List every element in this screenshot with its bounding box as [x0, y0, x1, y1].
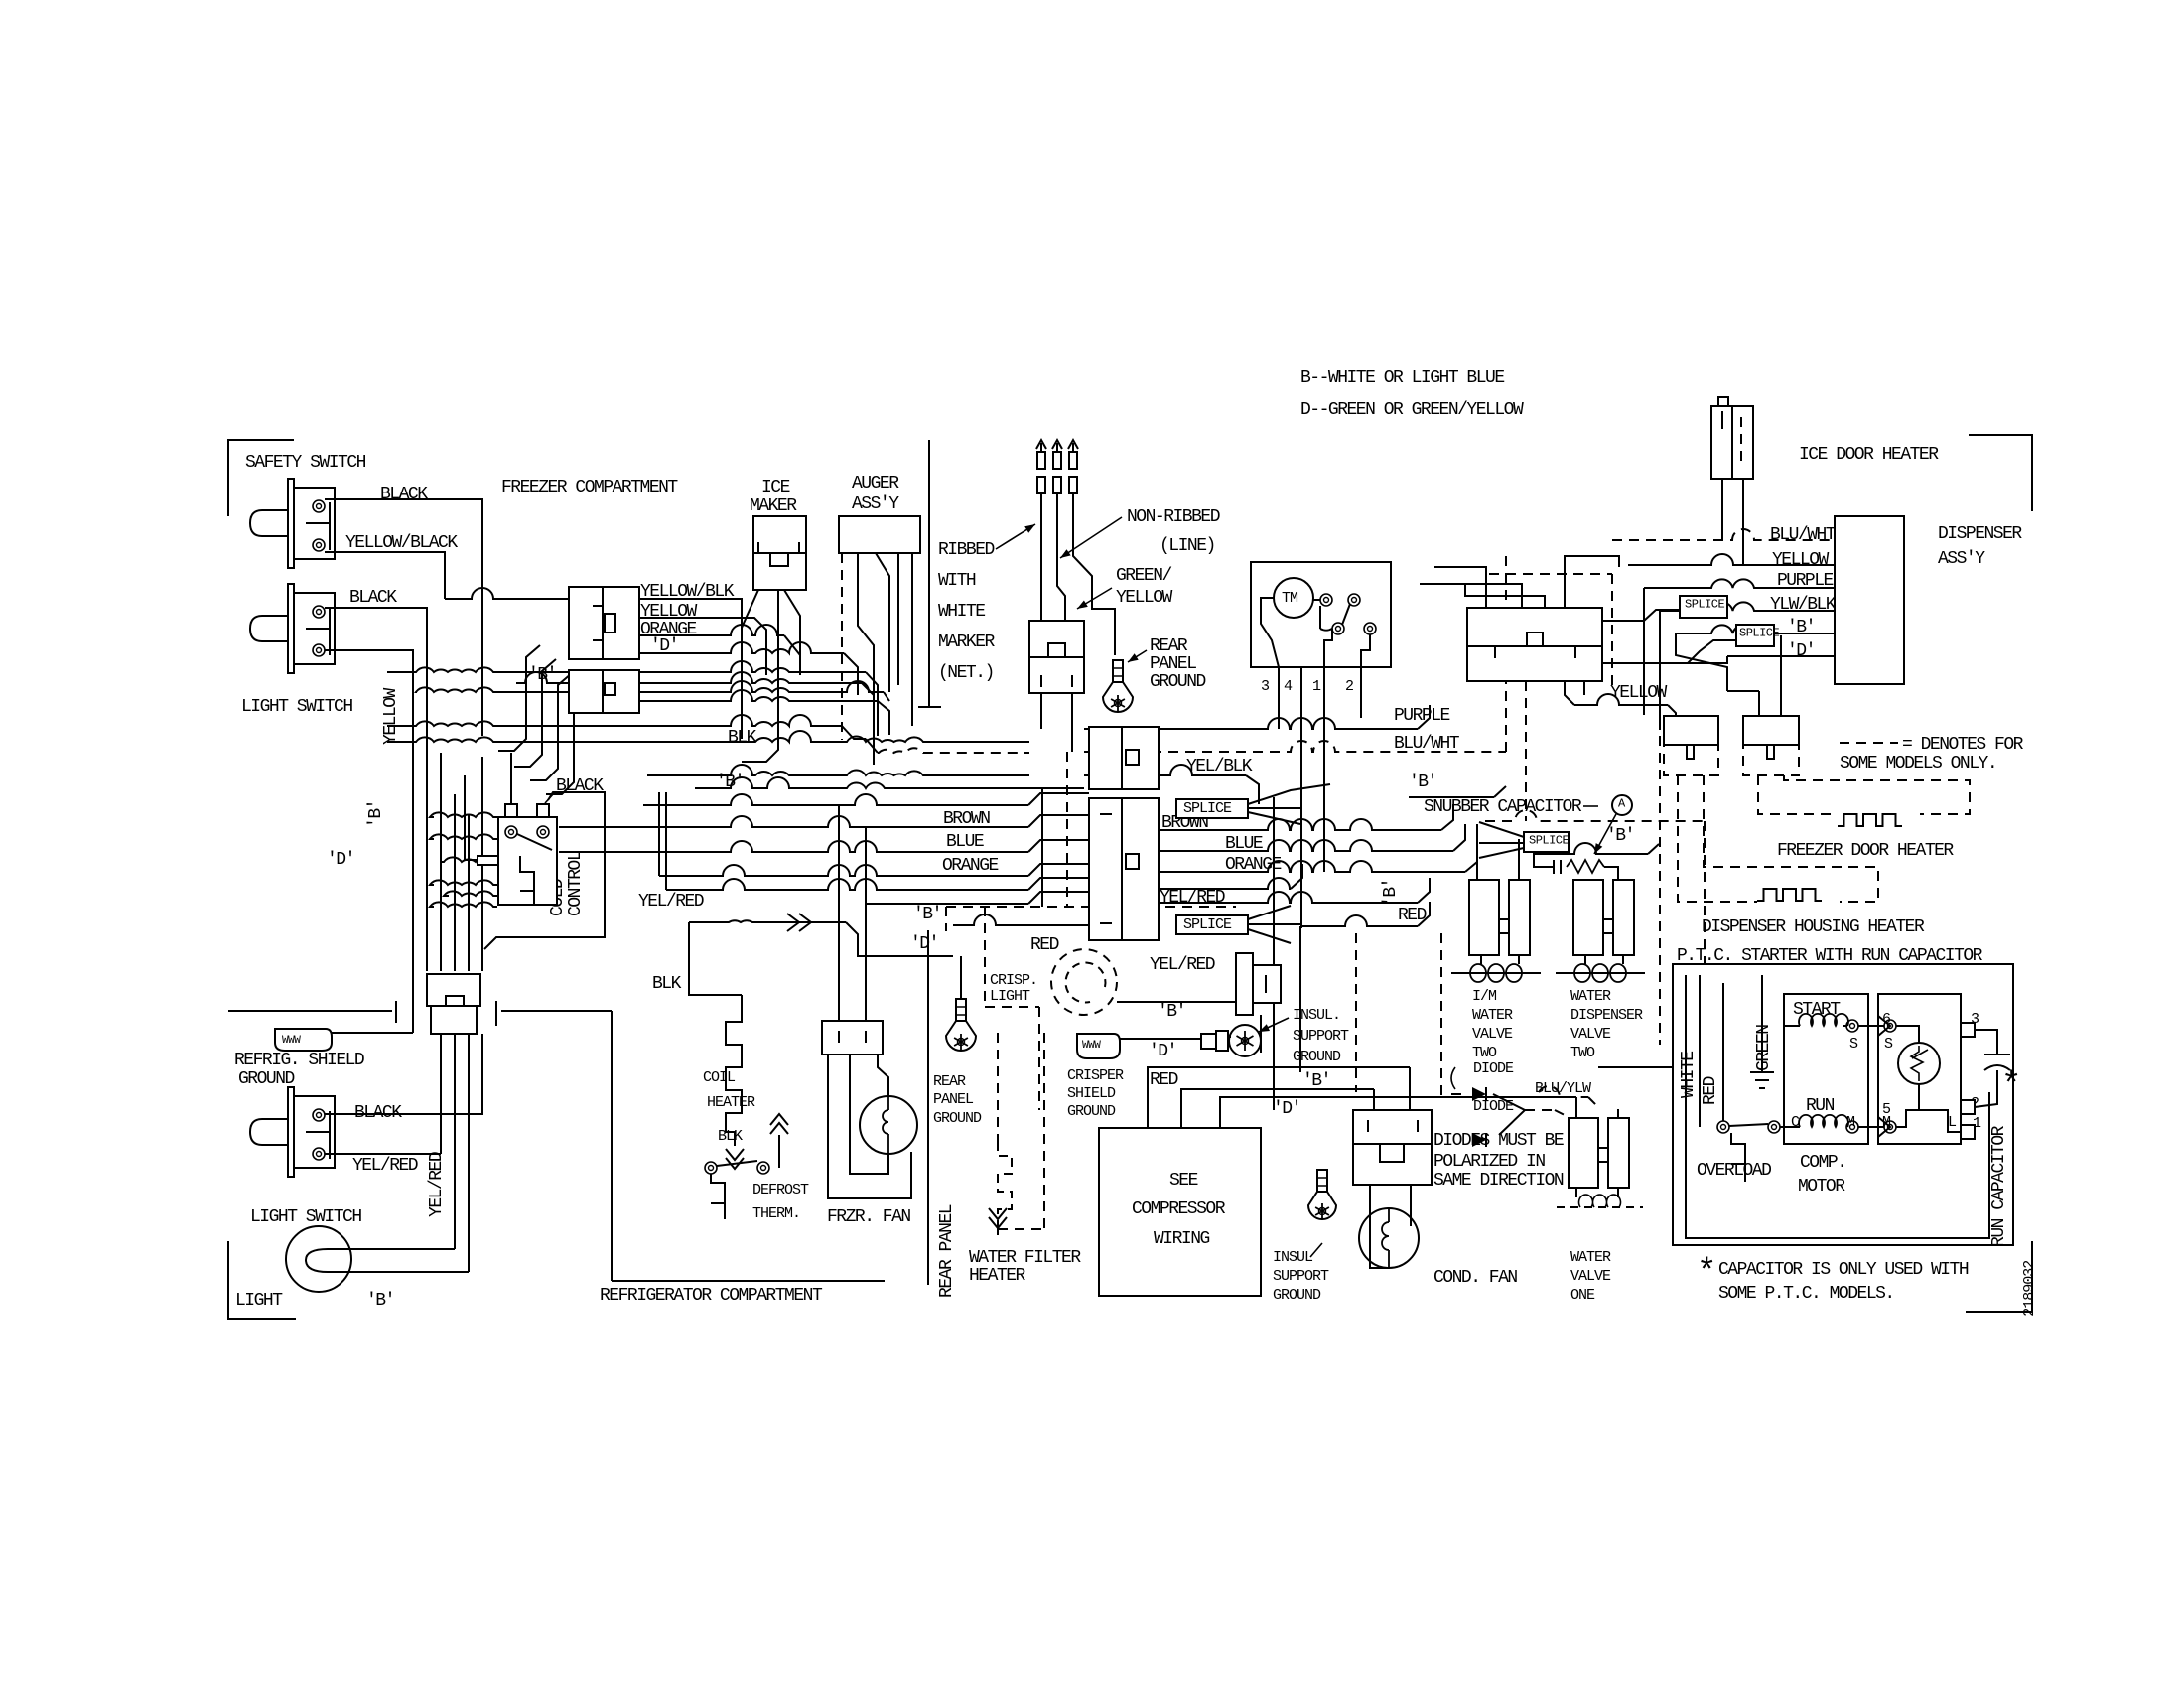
- svg-text:MOTOR: MOTOR: [1798, 1177, 1845, 1196]
- bus yelblk right: [1084, 765, 1259, 804]
- bus orange right: [1159, 850, 1477, 872]
- svg-text:4: 4: [1284, 678, 1293, 695]
- rear panel label vert: [937, 1204, 957, 1298]
- dispenser housing heater bumps: [1757, 889, 1822, 901]
- wire conn A out 4: [639, 642, 858, 695]
- rear panel divider: [927, 930, 929, 1285]
- compartment boundary line: [228, 1001, 612, 1281]
- orange label R: [1225, 855, 1282, 875]
- svg-text:ONE: ONE: [1570, 1287, 1595, 1304]
- coil heater label: [703, 1069, 755, 1111]
- svg-text:FRZR. FAN: FRZR. FAN: [827, 1207, 910, 1227]
- comp motor box: [1784, 994, 1868, 1144]
- diodes note: [1433, 1131, 1564, 1191]
- capacitor note aster: [1697, 1254, 1715, 1292]
- crisp wire right solid: [1117, 1001, 1236, 1003]
- insul support ground 3 label: [1273, 1243, 1329, 1304]
- cold control wire up 1: [510, 753, 512, 804]
- wire black label 2: [349, 588, 397, 608]
- svg-text:GROUND: GROUND: [933, 1110, 982, 1127]
- wire orange label: [640, 620, 697, 639]
- yellow label right: [1610, 683, 1668, 703]
- svg-text:BLACK: BLACK: [354, 1103, 402, 1123]
- ptc title: [1677, 946, 1983, 966]
- crisper gnd bulb: [1228, 1025, 1261, 1056]
- ptc ground sym: [1750, 1072, 1774, 1088]
- svg-text:SUPPORT: SUPPORT: [1293, 1028, 1349, 1045]
- auger pin 3: [876, 553, 889, 692]
- yelblk label: [1186, 757, 1253, 776]
- non-ribbed leader: [1060, 517, 1122, 558]
- frzr fan circle: [860, 1096, 917, 1154]
- snubber capacitor label: [1424, 797, 1582, 817]
- ribbed leader: [996, 524, 1035, 549]
- svg-text:SAFETY SWITCH: SAFETY SWITCH: [245, 453, 366, 473]
- wire black switch2: [325, 1037, 482, 1114]
- svg-text:P.T.C. STARTER WITH RUN CAPACI: P.T.C. STARTER WITH RUN CAPACITOR: [1677, 946, 1983, 966]
- svg-text:BLU/WHT: BLU/WHT: [1770, 525, 1837, 545]
- blu/ylw label: [1535, 1080, 1591, 1097]
- cold control label: [548, 851, 586, 916]
- ptc terminal 6: [1884, 1020, 1896, 1032]
- node D left2: [327, 850, 354, 870]
- timer pin 4 wire: [1300, 667, 1302, 928]
- wire ptc internal: [1896, 1084, 1961, 1132]
- svg-text:SOME P.T.C. MODELS.: SOME P.T.C. MODELS.: [1718, 1284, 1894, 1304]
- power cord prong right: [1068, 440, 1115, 655]
- green wire ptc: [1761, 975, 1763, 1072]
- svg-text:SPLICE: SPLICE: [1739, 627, 1780, 640]
- svg-text:WATER FILTER: WATER FILTER: [969, 1248, 1081, 1268]
- conn B left feed: [516, 672, 569, 683]
- cold control contact: [517, 834, 552, 850]
- wire vert x472: [468, 814, 470, 971]
- label 3 ptc: [1971, 1011, 1979, 1028]
- overload terminals: [1717, 1121, 1780, 1133]
- plug pin stub 2: [1071, 693, 1073, 752]
- red label comp: [1150, 1070, 1178, 1090]
- svg-text:GROUND: GROUND: [1150, 672, 1206, 692]
- wire black label 1: [380, 485, 428, 504]
- center connector top wire 4: [1565, 556, 1619, 608]
- svg-text:YEL/RED: YEL/RED: [427, 1152, 447, 1217]
- defrost terminals: [705, 1162, 769, 1174]
- svg-text:REFRIG. SHIELD: REFRIG. SHIELD: [234, 1051, 364, 1070]
- asterisk cap: [2001, 1067, 2020, 1105]
- bus 731: [387, 715, 866, 739]
- cold control black loop: [484, 792, 605, 949]
- wire lamp bottom lead: [351, 1271, 469, 1273]
- label 5: [1882, 1101, 1891, 1118]
- connector E upper: [1089, 727, 1159, 789]
- l label ptc: [1948, 1114, 1957, 1131]
- wire vert x486 lower: [481, 757, 483, 971]
- comp motor label: [1798, 1153, 1846, 1196]
- svg-text:'B': 'B': [366, 1291, 394, 1311]
- svg-text:WHITE: WHITE: [938, 602, 985, 622]
- svg-text:OVERLOAD: OVERLOAD: [1697, 1161, 1771, 1181]
- cold control left pin wire: [465, 775, 478, 860]
- node B crisp: [1158, 1002, 1185, 1022]
- svg-text:WITH: WITH: [938, 571, 976, 591]
- dashed trunk vertical 1672: [1659, 685, 1661, 1045]
- wire conn A out 1: [639, 599, 742, 628]
- bus row 811: [643, 793, 1089, 805]
- green/yellow leader: [1077, 588, 1112, 609]
- svg-text:(NET.): (NET.): [938, 663, 994, 683]
- svg-text:ICE DOOR HEATER: ICE DOOR HEATER: [1799, 445, 1939, 465]
- im valve body: [1469, 880, 1530, 955]
- svg-text:'B': 'B': [1409, 773, 1436, 792]
- run label: [1806, 1096, 1835, 1116]
- timer box: [1251, 562, 1391, 667]
- node D crisper: [1149, 1042, 1176, 1061]
- svg-text:DIODES MUST BE: DIODES MUST BE: [1433, 1131, 1564, 1151]
- bus yelred right: [1159, 878, 1430, 903]
- svg-text:BLK: BLK: [652, 974, 682, 994]
- crisper shield ground symbol: [1077, 1034, 1120, 1058]
- node B left vert: [366, 800, 386, 828]
- svg-text:LIGHT SWITCH: LIGHT SWITCH: [250, 1207, 361, 1227]
- defrost zig: [711, 1174, 725, 1219]
- light node B: [366, 1291, 394, 1311]
- node B comp: [1302, 1071, 1330, 1091]
- svg-text:YEL/RED: YEL/RED: [638, 892, 704, 912]
- refrig shield ground symbol: [275, 1029, 332, 1051]
- cond fan coil: [1382, 1208, 1389, 1268]
- yellow disp label: [1772, 550, 1830, 570]
- svg-text:COMPRESSOR: COMPRESSOR: [1132, 1199, 1226, 1219]
- start label: [1793, 1000, 1841, 1020]
- svg-text:SOME MODELS ONLY.: SOME MODELS ONLY.: [1840, 754, 1996, 774]
- svg-text:'B': 'B': [1302, 1071, 1330, 1091]
- center connector right wire 1: [1602, 610, 1680, 621]
- wire lamp top lead: [351, 1248, 455, 1250]
- node B vert label: [1381, 879, 1401, 907]
- power cord prong ribbed: [1036, 440, 1046, 621]
- yellow disp wire: [1628, 554, 1835, 565]
- dashed valve2 box: [1441, 810, 1705, 1109]
- circled A: [1612, 795, 1632, 815]
- s label comp: [1849, 1036, 1858, 1053]
- svg-text:VALVE: VALVE: [1570, 1268, 1611, 1285]
- label 6: [1882, 1011, 1891, 1028]
- dispenser housing heater loop: [1678, 775, 1878, 902]
- s-curve band wire 3: [530, 673, 572, 780]
- denotes note: [1840, 735, 2024, 774]
- bus 895 right: [1159, 864, 1302, 889]
- rear ground 2 stem up: [960, 956, 962, 1010]
- svg-text:BLK: BLK: [718, 1128, 743, 1145]
- wire b to ptc: [1598, 1066, 1700, 1068]
- wire brown label L: [943, 809, 990, 829]
- frzr fan filament: [883, 1096, 888, 1154]
- svg-text:SUPPORT: SUPPORT: [1273, 1268, 1329, 1285]
- run capacitor label: [1989, 1125, 2009, 1247]
- snubber network: [1534, 850, 1623, 880]
- cold control pins: [478, 804, 549, 865]
- insul support ground label c: [1259, 1007, 1349, 1065]
- svg-text:B--WHITE OR LIGHT BLUE: B--WHITE OR LIGHT BLUE: [1300, 368, 1504, 388]
- rear panel ground 1 leader: [1128, 650, 1147, 662]
- bus red mid: [953, 914, 1089, 925]
- ylwblk disp wire: [1660, 602, 1835, 611]
- defrost chevron up: [770, 1114, 788, 1134]
- wire black safety switch: [325, 499, 482, 736]
- ptc terminal 5: [1884, 1121, 1896, 1133]
- dispenser valve label: [1570, 988, 1643, 1061]
- wire black light switch: [325, 608, 427, 971]
- node B mid2: [913, 905, 941, 924]
- frzr fan label: [827, 1207, 910, 1227]
- node B left: [528, 665, 556, 685]
- freezer door heater dashes: [1758, 775, 1970, 814]
- water filter dashed right: [998, 1033, 1044, 1229]
- dispenser housing heater label: [1702, 917, 1925, 937]
- svg-text:RIBBED: RIBBED: [938, 540, 995, 560]
- svg-text:PURPLE: PURPLE: [1394, 706, 1450, 726]
- svg-text:GREEN: GREEN: [1754, 1025, 1774, 1071]
- svg-text:GREEN/: GREEN/: [1116, 566, 1172, 586]
- svg-text:SPLICE: SPLICE: [1183, 800, 1232, 817]
- refrig shield ground lead: [332, 1032, 413, 1034]
- run coil: [1793, 1115, 1848, 1127]
- node B disp: [1787, 618, 1815, 637]
- svg-text:BROWN: BROWN: [943, 809, 990, 829]
- svg-text:S: S: [1884, 1036, 1893, 1053]
- water valve one label: [1570, 1249, 1611, 1304]
- crisp label: [990, 972, 1037, 1005]
- wire ice door 1: [1721, 479, 1723, 540]
- bus purple right: [1084, 705, 1430, 729]
- svg-text:PANEL: PANEL: [1150, 654, 1196, 674]
- s label ptc: [1884, 1036, 1893, 1053]
- white label vert: [1679, 1052, 1699, 1098]
- dashed vertical 1517: [1505, 556, 1507, 752]
- overload zig: [1731, 1133, 1745, 1182]
- svg-text:TM: TM: [1282, 590, 1298, 607]
- part line top bracket: [1969, 435, 2032, 511]
- s-curve band wire 2: [514, 659, 556, 767]
- crisp dashed wire: [985, 907, 1039, 1110]
- svg-text:'D': 'D': [1149, 1042, 1176, 1061]
- light lamp circle: [286, 1226, 351, 1292]
- overload wire: [1729, 1124, 1793, 1127]
- legend line D: [1300, 400, 1524, 420]
- svg-text:REAR PANEL: REAR PANEL: [937, 1204, 957, 1298]
- purple label: [1394, 706, 1450, 726]
- svg-text:SAME DIRECTION: SAME DIRECTION: [1433, 1171, 1564, 1191]
- ice maker box: [753, 516, 806, 590]
- wire vert x458: [454, 794, 456, 971]
- big B vertical: [1273, 797, 1275, 1110]
- svg-text:YELLOW: YELLOW: [1116, 588, 1173, 608]
- bluwht label: [1394, 734, 1460, 754]
- svg-text:SEE: SEE: [1169, 1171, 1198, 1191]
- bus b right: [1409, 786, 1506, 797]
- vert 1050: [1041, 789, 1043, 907]
- svg-text:SNUBBER CAPACITOR: SNUBBER CAPACITOR: [1424, 797, 1582, 817]
- svg-text:COIL: COIL: [703, 1069, 736, 1086]
- bluwht disp wire: [1612, 529, 1835, 540]
- connector C: [427, 974, 480, 1034]
- ptc outer box: [1673, 964, 2013, 1245]
- svg-text:GROUND: GROUND: [1273, 1287, 1321, 1304]
- svg-text:DISPENSER: DISPENSER: [1570, 1007, 1643, 1024]
- svg-text:LIGHT SWITCH: LIGHT SWITCH: [241, 697, 352, 717]
- ptc inner frame: [1686, 975, 1989, 1238]
- svg-text:YELLOW: YELLOW: [1610, 683, 1668, 703]
- svg-text:FREEZER COMPARTMENT: FREEZER COMPARTMENT: [501, 478, 678, 497]
- svg-text:'D': 'D': [910, 934, 938, 954]
- part underline bracket: [1966, 1241, 2032, 1312]
- white wire ptc: [1699, 975, 1701, 1127]
- water filter label: [969, 1248, 1081, 1286]
- svg-text:HEATER: HEATER: [707, 1094, 755, 1111]
- wire vert x458 lower: [454, 1037, 456, 1249]
- center connector: [1467, 608, 1602, 681]
- ice door heater label: [1799, 445, 1939, 465]
- light label: [235, 1291, 283, 1311]
- svg-text:'B': 'B': [1381, 879, 1401, 907]
- water valve one coil dashed: [1557, 1195, 1643, 1207]
- compressor label: [1132, 1171, 1226, 1249]
- light lamp filament: [306, 1249, 351, 1272]
- bus row 858: [442, 840, 1089, 862]
- splice 3 fan: [1479, 822, 1524, 858]
- start coil: [1784, 1014, 1848, 1026]
- svg-text:'B': 'B': [1606, 826, 1634, 846]
- blk label left: [652, 974, 682, 994]
- auger pin 2: [858, 553, 874, 765]
- splice 3 box: [1524, 832, 1570, 852]
- wire conn A out 3: [639, 625, 800, 675]
- svg-text:YELLOW/BLACK: YELLOW/BLACK: [345, 533, 458, 553]
- right plug 2 dashed: [1743, 745, 1799, 775]
- svg-text:WWW: WWW: [1082, 1040, 1101, 1052]
- svg-text:ICE: ICE: [761, 478, 790, 497]
- m label comp: [1846, 1114, 1855, 1131]
- light switch 2 label: [250, 1207, 361, 1227]
- wire yellow light switch: [325, 650, 413, 1033]
- freezer door heater bumps: [1838, 814, 1902, 826]
- c label: [1791, 1114, 1800, 1131]
- node B right: [1409, 773, 1436, 792]
- im valve label: [1472, 988, 1513, 1061]
- right plug 1: [1664, 716, 1718, 759]
- center connector top wire 1: [1434, 567, 1486, 608]
- label 1 ptc: [1973, 1115, 1981, 1132]
- bus 677: [387, 661, 878, 736]
- svg-text:YEL/RED: YEL/RED: [352, 1156, 418, 1176]
- vert 671: [665, 792, 667, 890]
- freezer door heater label: [1777, 841, 1954, 861]
- green/yellow label: [1116, 566, 1173, 608]
- wire yellow/blk label: [640, 582, 735, 602]
- svg-text:BLU/WHT: BLU/WHT: [1394, 734, 1460, 754]
- plug connector: [1029, 621, 1084, 693]
- ptc zigzag: [1911, 1046, 1928, 1081]
- wire conn A out 2: [639, 618, 766, 675]
- svg-text:SPLICE: SPLICE: [1685, 598, 1725, 612]
- svg-text:AUGER: AUGER: [852, 474, 899, 493]
- svg-text:FREEZER DOOR HEATER: FREEZER DOOR HEATER: [1777, 841, 1954, 861]
- crisp light inner: [1066, 963, 1106, 1003]
- svg-text:'B': 'B': [1158, 1002, 1185, 1022]
- wire vert x472 lower: [468, 1037, 470, 1272]
- wire blk vert: [689, 922, 742, 995]
- refrig shield ground label 2: [238, 1069, 295, 1089]
- start terminal: [1846, 1020, 1858, 1032]
- svg-text:WWW: WWW: [282, 1035, 301, 1047]
- svg-text:'D': 'D': [1273, 1099, 1300, 1119]
- purple disp label: [1777, 571, 1834, 591]
- center connector yellow wire: [1565, 681, 1668, 705]
- frzr fan connector: [822, 1021, 883, 1055]
- rear panel ground 2 label: [933, 1073, 982, 1127]
- light switch 1: [250, 584, 335, 673]
- svg-text:VALVE: VALVE: [1570, 1026, 1611, 1043]
- svg-text:DEFROST: DEFROST: [752, 1182, 809, 1198]
- svg-text:LIGHT: LIGHT: [235, 1291, 283, 1311]
- auger label: [852, 474, 899, 514]
- wire blue label L: [946, 832, 984, 852]
- blk label coil: [718, 1128, 743, 1145]
- svg-text:TWO: TWO: [1570, 1045, 1595, 1061]
- insul support ground 3: [1308, 1170, 1336, 1219]
- wire red label mid: [1030, 935, 1059, 955]
- bus 744 dashed: [866, 739, 1029, 753]
- coil heater chevron down: [726, 1149, 744, 1169]
- non-ribbed label: [1127, 507, 1220, 556]
- label 2 ptc: [1971, 1095, 1979, 1112]
- wire 6 arrow: [1878, 1016, 1890, 1036]
- bluwht disp label: [1770, 525, 1837, 545]
- blue label R: [1225, 834, 1263, 854]
- overload label: [1697, 1161, 1771, 1181]
- svg-text:WIRING: WIRING: [1154, 1229, 1210, 1249]
- connector C pin stubs: [441, 1034, 482, 1037]
- ptc circle: [1898, 1043, 1940, 1084]
- wire conn B out 1: [639, 672, 874, 715]
- svg-text:LIGHT: LIGHT: [990, 988, 1030, 1005]
- crisper ground wire: [1120, 1038, 1201, 1040]
- bus row 910: [430, 892, 1089, 907]
- defrost label: [752, 1182, 809, 1222]
- svg-text:REAR: REAR: [933, 1073, 966, 1090]
- plug pin stub 1: [1040, 693, 1042, 729]
- svg-text:BLU/YLW: BLU/YLW: [1535, 1080, 1591, 1097]
- dashed vertical 1366: [1355, 933, 1357, 1092]
- svg-text:*: *: [1697, 1254, 1715, 1292]
- svg-text:CAPACITOR IS ONLY USED WITH: CAPACITOR IS ONLY USED WITH: [1718, 1260, 1969, 1280]
- svg-text:NON-RIBBED: NON-RIBBED: [1127, 507, 1220, 527]
- wire yellow/black horiz: [325, 552, 445, 599]
- refrigerator compartment corner bracket: [228, 1241, 296, 1319]
- svg-text:WATER: WATER: [1570, 988, 1611, 1005]
- bus row 898: [444, 878, 1089, 896]
- node B snubber: [1606, 826, 1634, 846]
- svg-text:I/M: I/M: [1472, 988, 1497, 1005]
- wire yel/red label L: [638, 892, 704, 912]
- dispenser valve stems: [1585, 955, 1623, 964]
- svg-text:TWO: TWO: [1472, 1045, 1497, 1061]
- svg-text:*: *: [2001, 1067, 2020, 1105]
- wire pin3: [1975, 1030, 1997, 1048]
- cold control zigzag: [520, 856, 534, 905]
- svg-text:2: 2: [1345, 678, 1353, 695]
- ice maker pin 3: [784, 590, 800, 655]
